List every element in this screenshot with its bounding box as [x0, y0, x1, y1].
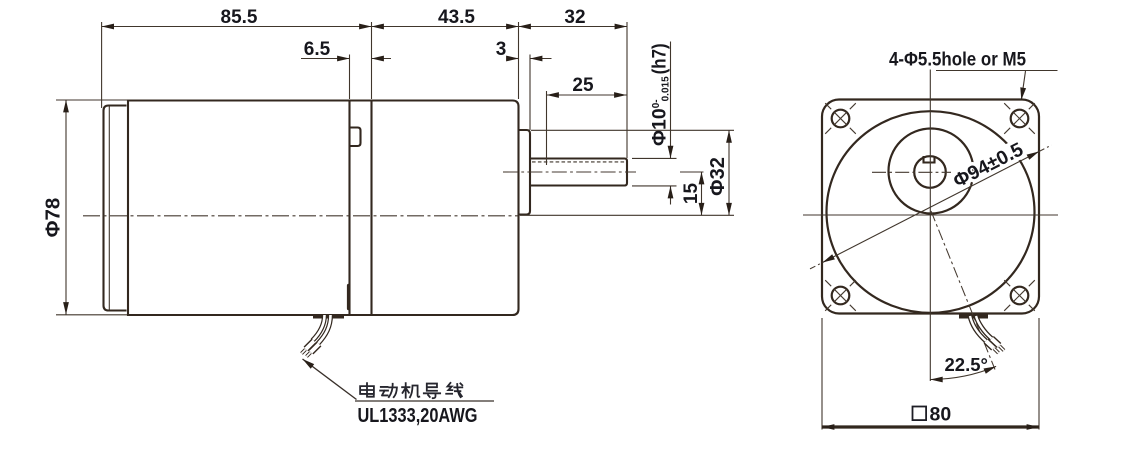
dim 85.5 extension left — [101, 22, 103, 108]
arrow 32 left — [519, 24, 531, 30]
hole leader line — [1022, 71, 1026, 99]
hole label underline — [936, 70, 1058, 72]
small tab on joint — [351, 128, 361, 147]
arrow phi10 bottom — [668, 186, 674, 198]
horizontal centerline — [803, 214, 1058, 216]
dim extension at x371.5 — [371, 22, 373, 99]
arrow 25 left — [547, 92, 559, 98]
phi94 overrun left — [810, 263, 823, 269]
shaft horizontal centerline — [872, 171, 951, 173]
dim 15 line — [701, 172, 703, 215]
dim 3 extension — [529, 55, 531, 131]
top dimension line 85.5/43.5/32 — [102, 26, 627, 28]
arrow 3 left — [506, 56, 518, 62]
dim 6.5 extension — [349, 55, 351, 100]
clamp bar at joint bottom — [347, 286, 351, 309]
svg-text:22.5°: 22.5° — [945, 354, 988, 375]
dim extension at x627 — [626, 22, 628, 158]
shaft circle phi10 — [914, 156, 946, 188]
body centerline — [83, 215, 518, 217]
motor/gearbox joint line right — [370, 101, 372, 316]
dim phi78 extensions — [56, 99, 127, 101]
svg-text:UL1333,20AWG: UL1333,20AWG — [358, 405, 478, 427]
phi94 overrun right — [1039, 145, 1052, 151]
front wire 2 — [976, 316, 992, 339]
arrow 15 top — [699, 172, 705, 184]
motor body circle phi78 — [827, 111, 1035, 313]
svg-text:Φ32: Φ32 — [707, 157, 729, 196]
dim 25 line — [547, 94, 627, 96]
arrow 32 right — [615, 24, 627, 30]
phi32 top extension — [531, 129, 734, 131]
svg-text:80: 80 — [930, 404, 952, 426]
dim phi32 line — [728, 130, 730, 215]
bolt hole BR — [1011, 287, 1029, 305]
bolt hole TL — [832, 110, 850, 128]
shaft top extension — [632, 157, 677, 159]
flange square — [822, 100, 1039, 314]
char dong — [380, 384, 397, 397]
square80 extension left — [821, 318, 823, 430]
arrow 85.5 left — [102, 24, 114, 30]
angle arc — [930, 366, 996, 379]
front tip 1 — [994, 349, 999, 354]
dim extension at x518.5 — [518, 22, 520, 99]
output boss phi32 — [519, 130, 531, 215]
dim phi78 line — [65, 100, 67, 315]
arrow sq80 left — [822, 424, 834, 430]
svg-text:25: 25 — [572, 75, 594, 96]
char dao — [424, 384, 440, 399]
22.5 deg centerline — [931, 211, 995, 370]
FRONT VIEW — [803, 49, 1058, 430]
svg-text:Φ78: Φ78 — [42, 198, 65, 238]
bolt hole BL — [832, 287, 850, 305]
char xian — [446, 383, 462, 397]
wire tip 1 — [302, 350, 306, 354]
arrow phi32 top — [726, 130, 732, 142]
front ferrule 1 — [986, 341, 994, 348]
arrow phi94 right — [1027, 152, 1039, 160]
wire ferrule 2 — [311, 344, 319, 352]
front grommet — [959, 315, 988, 319]
dim phi94 line — [823, 152, 1040, 263]
dim 25 extension — [546, 91, 548, 165]
arrow phi78 bottom — [63, 302, 69, 314]
square80 extension right — [1038, 318, 1040, 430]
svg-text:3: 3 — [496, 39, 507, 60]
arrow 85.5 right — [359, 24, 371, 30]
wire ferrule 1 — [306, 341, 314, 349]
dim 15 tick — [680, 171, 704, 173]
arrow 3 right — [530, 56, 542, 62]
phi32 bottom extension — [520, 214, 734, 216]
wire tip 2 — [307, 353, 311, 357]
front ferrule 2 — [992, 339, 1000, 346]
arrow 43.5 right — [506, 24, 518, 30]
shaft bottom extension — [632, 185, 677, 187]
wire 1 — [313, 315, 325, 341]
arrow phi32 bottom — [726, 203, 732, 215]
arrow sq80 right — [1027, 424, 1039, 430]
arrow phi10 top — [668, 146, 674, 158]
svg-text:6.5: 6.5 — [304, 39, 331, 60]
svg-text:Φ94±0.5: Φ94±0.5 — [950, 138, 1027, 192]
motor rear cap — [104, 106, 127, 311]
arrow arc left — [930, 377, 942, 383]
output shaft phi10 — [530, 159, 627, 186]
bolt hole TR — [1011, 110, 1029, 128]
dim 3 line — [509, 58, 519, 60]
arrow 6.5 left — [337, 56, 349, 62]
char dian — [360, 383, 374, 397]
svg-text:32: 32 — [564, 7, 585, 28]
arrow phi94 left — [823, 254, 835, 262]
ARROWHEADS — [63, 24, 1039, 430]
shaft keyway — [924, 156, 935, 163]
arrow 6.5 right — [372, 56, 384, 62]
grommet at wire exit — [313, 315, 344, 319]
vertical centerline — [929, 70, 931, 382]
wire leader line — [303, 359, 357, 400]
arrow 15 bottom — [699, 203, 705, 215]
shaft flat dashed line — [532, 161, 626, 163]
motor/gearbox joint line left — [348, 101, 350, 316]
arrow 25 right — [614, 92, 626, 98]
char ji — [402, 383, 419, 398]
wire 2 — [318, 315, 331, 344]
arrow phi78 top — [63, 100, 69, 112]
rear cap inner edge — [108, 107, 110, 310]
dim phi10 line — [670, 42, 672, 159]
dim 6.5 line — [301, 58, 350, 60]
dim square80 line — [822, 425, 1039, 428]
motor body outline — [128, 101, 519, 316]
arrow hole leader — [1020, 87, 1026, 100]
label square80 symbol — [913, 407, 927, 421]
arrow wire leader — [303, 359, 315, 369]
front wire 1 — [970, 316, 986, 341]
svg-text:85.5: 85.5 — [221, 7, 258, 28]
SIDE VIEW — [42, 7, 735, 427]
svg-text:43.5: 43.5 — [438, 7, 475, 28]
shaft centerline — [503, 171, 636, 173]
boss circle phi32 — [889, 129, 974, 214]
arrow 43.5 left — [372, 24, 384, 30]
front tip 2 — [1000, 346, 1005, 351]
arrow arc right — [984, 366, 997, 373]
label motor lead wire (CJK) — [360, 383, 462, 398]
svg-text:15: 15 — [681, 183, 702, 205]
wire label underline — [355, 400, 494, 402]
svg-text:4-Φ5.5hole or M5: 4-Φ5.5hole or M5 — [889, 49, 1026, 71]
